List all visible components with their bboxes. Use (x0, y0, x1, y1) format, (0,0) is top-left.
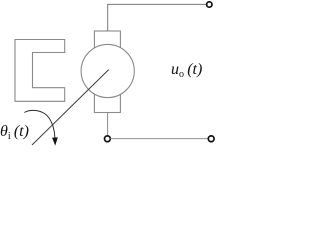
wire bottom horizontal (110, 138, 208, 140)
shaft (diagonal input line) (32, 70, 109, 145)
wire bottom (from body to wiper terminal) (107, 113, 109, 136)
potentiometer body R (rectangle) (94, 31, 120, 113)
label theta_i(t) input angle (0, 123, 29, 142)
wire top (from body to upper terminal) (108, 4, 207, 31)
rotation arrow arc for theta_i (24, 110, 55, 138)
rotation arrowhead (52, 137, 58, 145)
rotor disc (wiper circle) (81, 44, 134, 97)
label u_o(t) output voltage (171, 61, 202, 80)
stator frame (C-shaped core) (15, 40, 65, 102)
terminal upper output (207, 2, 212, 7)
terminal lower output (208, 136, 214, 142)
wiper terminal (105, 136, 111, 142)
